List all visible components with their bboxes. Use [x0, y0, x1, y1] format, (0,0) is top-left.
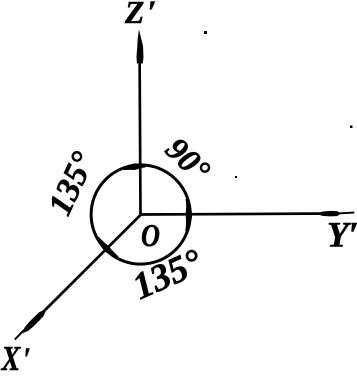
svg-text:135°: 135° [127, 242, 209, 308]
svg-text:135°: 135° [41, 146, 102, 221]
svg-text:Y′: Y′ [327, 215, 357, 255]
svg-text:90°: 90° [158, 131, 216, 189]
svg-text:O: O [141, 219, 160, 254]
svg-text:Z′: Z′ [124, 0, 157, 31]
svg-text:X′: X′ [1, 339, 31, 378]
